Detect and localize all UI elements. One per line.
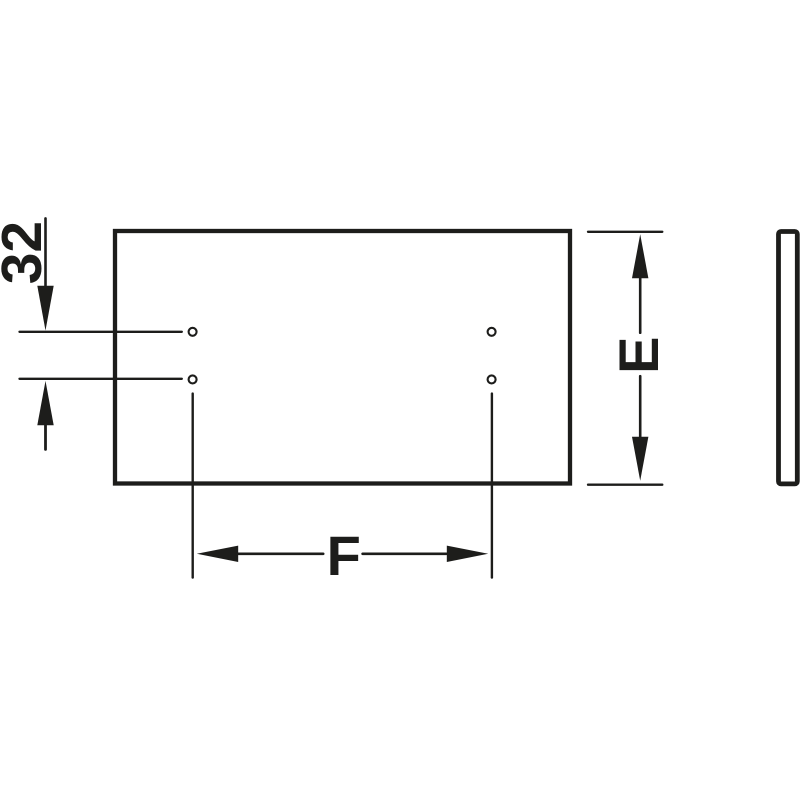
dim-F arrow right: [447, 546, 488, 562]
dim-F line left segment: [237, 552, 323, 555]
dim-32 arrow down: [37, 286, 53, 331]
dim-32 extension line upper: [20, 331, 182, 333]
front panel plate: [115, 231, 570, 484]
dim-32 arrow up: [37, 381, 53, 425]
svg-text:32: 32: [0, 221, 54, 284]
dim-F arrow left: [197, 546, 238, 562]
hole bottom-left: [189, 375, 197, 383]
svg-text:E: E: [607, 337, 670, 374]
dim-F extension line right: [491, 394, 493, 578]
dim-E top tick: [588, 231, 662, 233]
dim-E line lower: [639, 376, 642, 438]
dim-E arrow up: [632, 234, 648, 278]
dim-F extension line left: [191, 394, 193, 578]
svg-text:F: F: [327, 524, 361, 587]
dim-32 leader line above: [44, 218, 47, 295]
dim-32 leader line below: [44, 424, 47, 449]
dim-E line upper: [639, 277, 642, 333]
dim-E bottom tick: [588, 484, 662, 486]
hole top-left: [189, 328, 197, 336]
dim-F line right segment: [363, 552, 447, 555]
side panel plate: [779, 232, 798, 484]
hole top-right: [488, 328, 496, 336]
dim-E arrow down: [632, 437, 648, 481]
hole bottom-right: [488, 375, 496, 383]
dim-32 extension line lower: [20, 378, 182, 380]
